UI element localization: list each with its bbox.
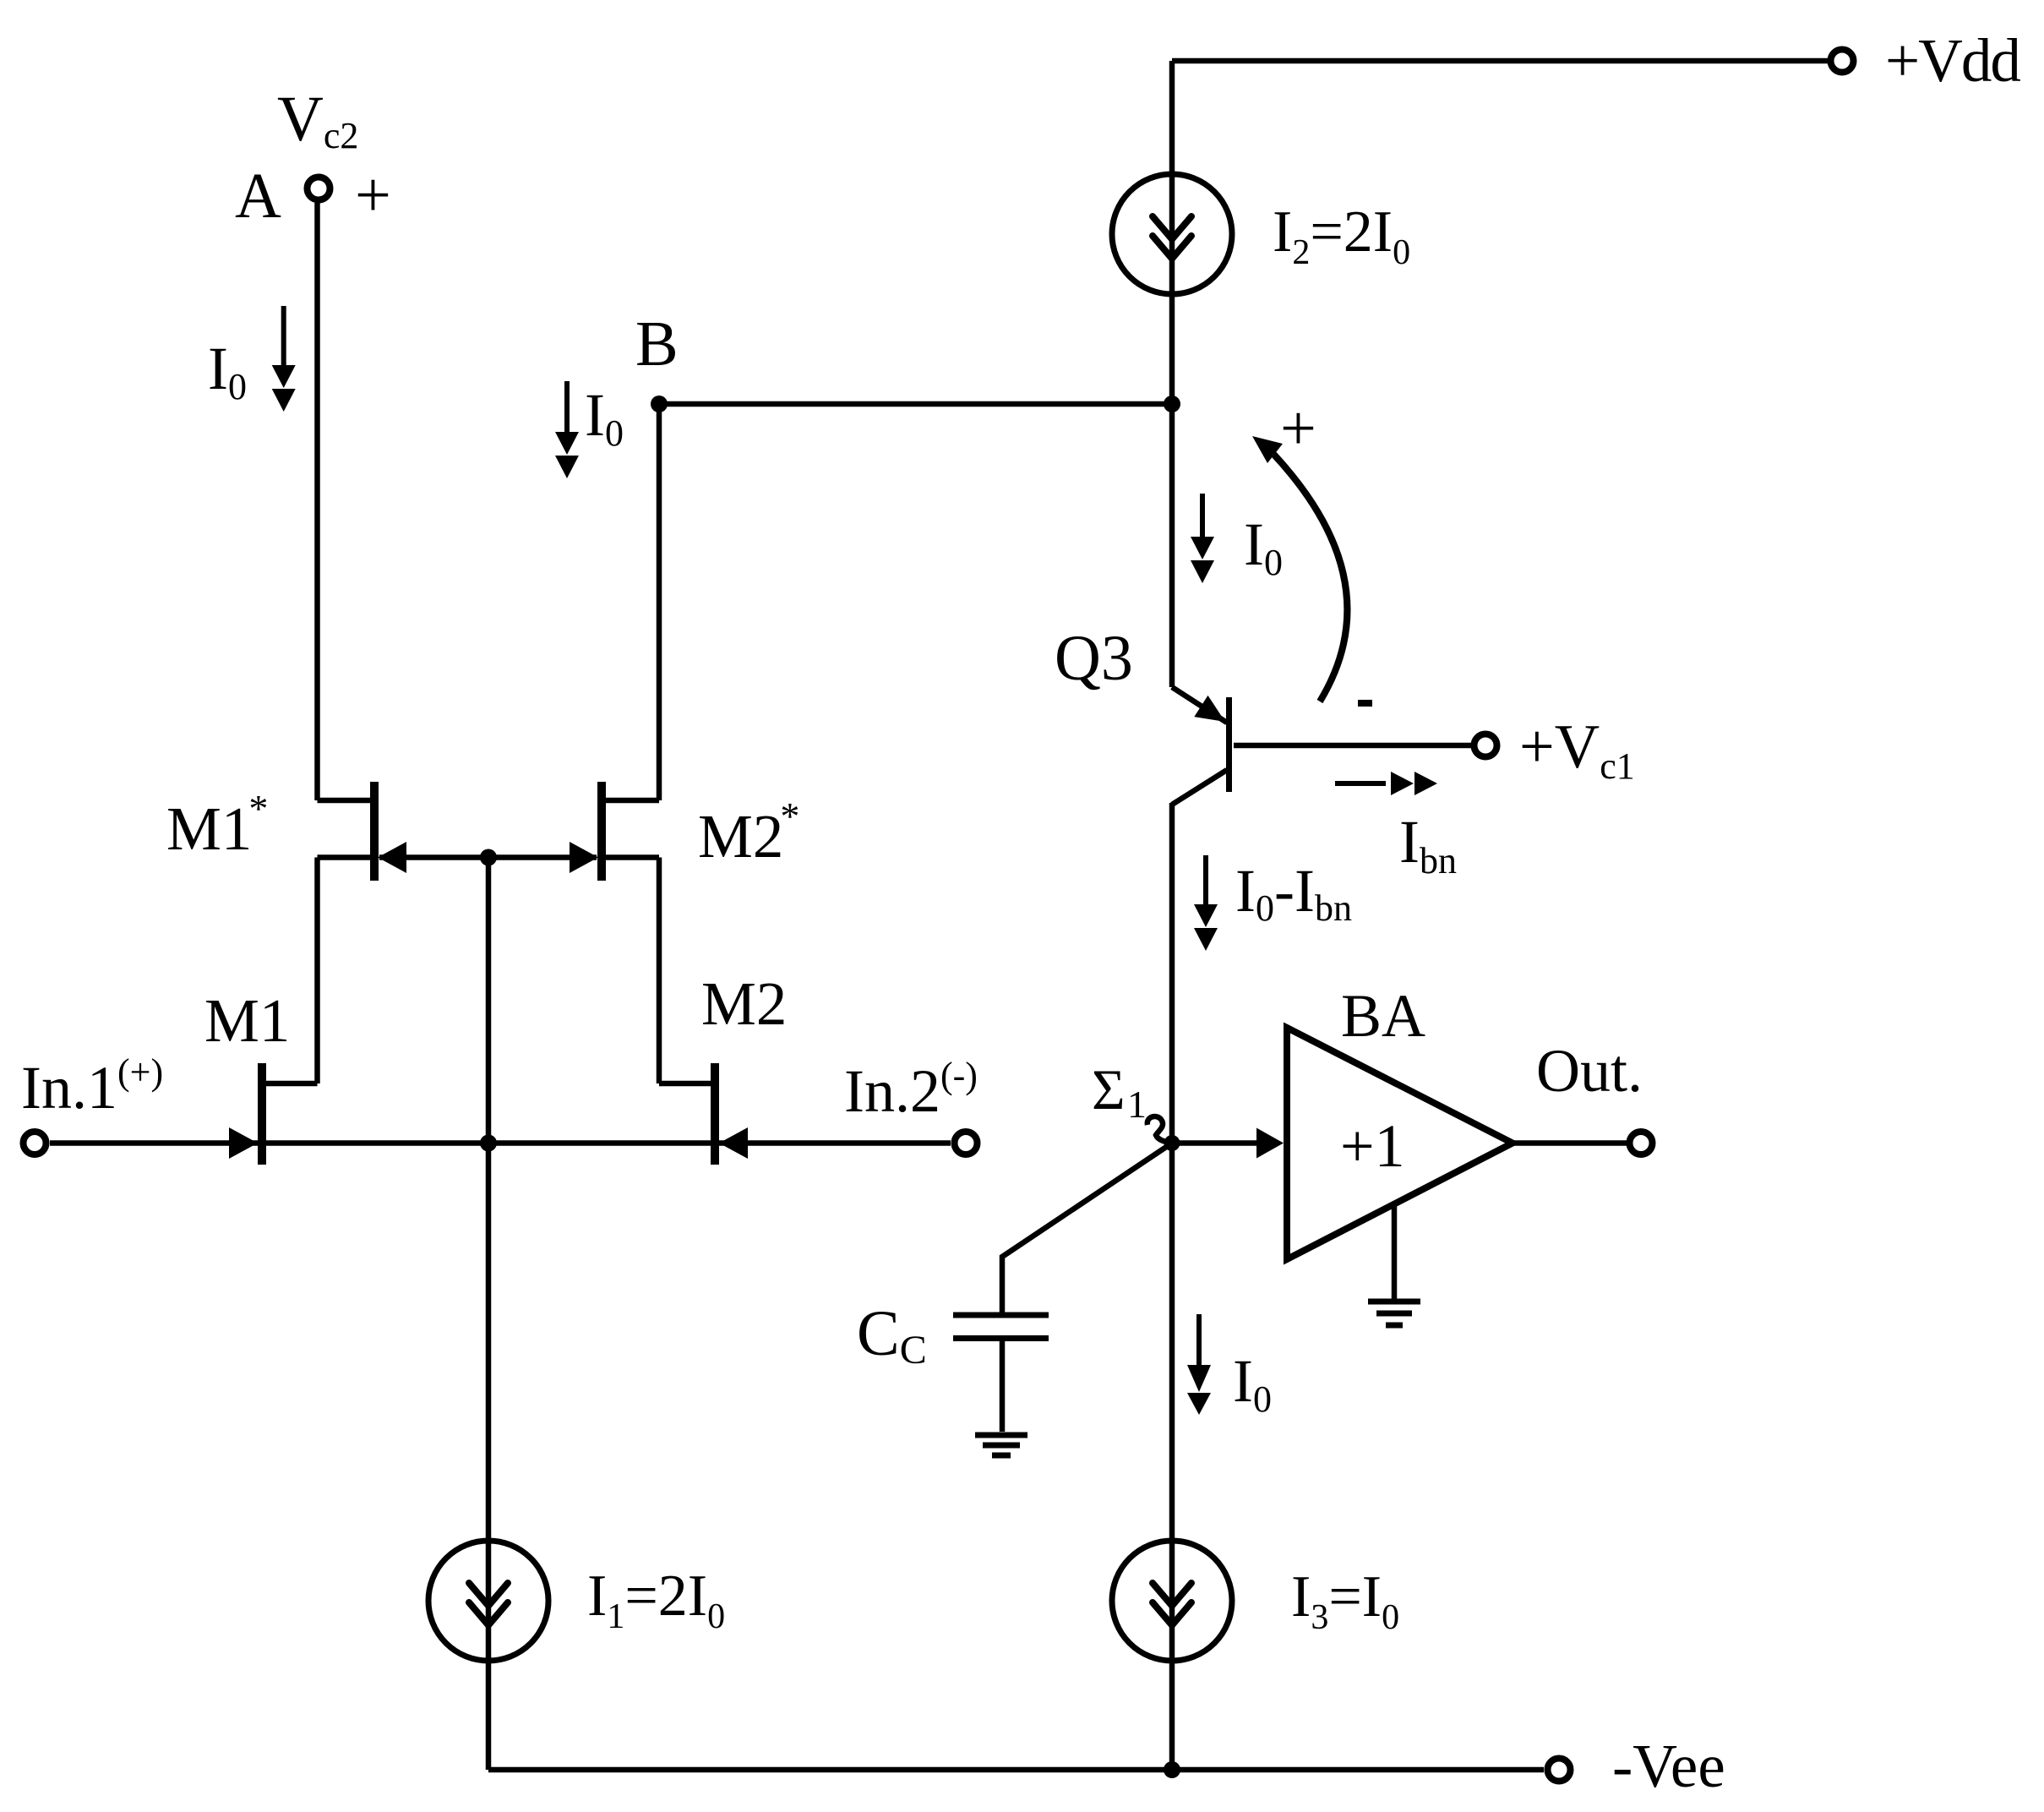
node input row junction bbox=[480, 1135, 497, 1152]
label - of curved arrow bbox=[1358, 700, 1372, 707]
wire node to buffer input bbox=[1178, 1140, 1263, 1146]
terminal Vc2 node A bbox=[308, 177, 330, 200]
current arrow I0 into M2* bbox=[555, 381, 579, 478]
svg-text:M1: M1 bbox=[204, 986, 290, 1055]
node Vee junction bbox=[1164, 1761, 1180, 1778]
wire -Vee rail bbox=[488, 1767, 1544, 1773]
terminal In.1 bbox=[24, 1132, 46, 1154]
curved polarity arrow bbox=[1273, 453, 1347, 701]
svg-text:M2: M2 bbox=[701, 969, 787, 1038]
transistor M1* bbox=[318, 782, 375, 881]
terminal Out bbox=[1630, 1132, 1653, 1154]
terminal +Vc1 bbox=[1474, 734, 1497, 757]
arrowhead into M1* gate bbox=[378, 842, 406, 873]
wire sigma node to capacitor bbox=[1002, 1143, 1172, 1313]
arrowhead into M1 gate bbox=[229, 1127, 258, 1159]
arrowhead of curved arrow bbox=[1252, 436, 1283, 463]
svg-text:A: A bbox=[235, 161, 281, 232]
wire +Vdd rail bbox=[1172, 58, 1828, 64]
svg-text:+: + bbox=[1280, 393, 1316, 464]
svg-text:+1: +1 bbox=[1340, 1112, 1405, 1180]
current arrow I0 above I3 bbox=[1187, 1314, 1211, 1415]
wire input row In.1 to In.2 bbox=[50, 1140, 951, 1146]
arrowhead into Q3 bbox=[1194, 696, 1225, 722]
buffer amplifier BA bbox=[1287, 1028, 1513, 1259]
transistor Q3 emitter lead bbox=[1172, 770, 1227, 805]
wire M2* source to M2 drain bbox=[657, 858, 662, 1084]
svg-text:Σ: Σ bbox=[1092, 1057, 1126, 1122]
terminal In.2 bbox=[955, 1132, 978, 1154]
terminal +Vdd bbox=[1831, 50, 1854, 73]
current arrow I0 above Q3 bbox=[1191, 494, 1214, 583]
wire Q3 emitter down to Vee rail bbox=[1169, 803, 1175, 1770]
svg-text:BA: BA bbox=[1341, 982, 1425, 1050]
node junction at B rail bbox=[1164, 396, 1180, 412]
ground of buffer BA bbox=[1368, 1302, 1420, 1325]
svg-text:+: + bbox=[355, 160, 391, 231]
wire Q3 base to Vc1 bbox=[1234, 743, 1471, 749]
current source I2 bbox=[1112, 174, 1232, 294]
svg-text:Q3: Q3 bbox=[1055, 623, 1133, 694]
transistor M1 bbox=[262, 1063, 318, 1165]
current arrow I0-Ibn bbox=[1194, 855, 1218, 951]
transistor M2 bbox=[659, 1063, 715, 1165]
wire buffer output bbox=[1513, 1140, 1627, 1146]
wire Vdd rail to I2 bbox=[1169, 61, 1175, 177]
node B bbox=[651, 396, 668, 412]
svg-text:+Vdd: +Vdd bbox=[1885, 26, 2020, 95]
node gate bus junction bbox=[480, 849, 497, 866]
current source I3 bbox=[1112, 1541, 1232, 1661]
current arrow Ibn bbox=[1335, 772, 1437, 795]
ground of capacitor bbox=[975, 1435, 1027, 1455]
wire buffer to ground bbox=[1392, 1205, 1398, 1299]
wire A down to M1* drain bbox=[314, 203, 320, 800]
svg-text:Out.: Out. bbox=[1536, 1037, 1643, 1105]
svg-text:B: B bbox=[635, 308, 679, 379]
transistor Q3 collector lead bbox=[1172, 687, 1227, 723]
wire node B horizontal bbox=[659, 401, 1172, 407]
arrowhead into M2 gate bbox=[719, 1127, 748, 1159]
arrowhead into M2* gate bbox=[570, 842, 598, 873]
svg-text:-Vee: -Vee bbox=[1612, 1732, 1725, 1800]
wire M1* source to M1 drain bbox=[314, 858, 320, 1084]
svg-text:1: 1 bbox=[1127, 1083, 1147, 1126]
wire center column down to I1 and Vee rail bbox=[486, 858, 492, 1771]
current arrow I0 into M1* bbox=[272, 306, 296, 412]
squiggle from Sigma1 to node bbox=[1147, 1116, 1171, 1143]
node sigma1 junction bbox=[1164, 1135, 1180, 1151]
current source I1 bbox=[428, 1541, 548, 1661]
wire I2 to node B junction and Q3 emitter bbox=[1169, 292, 1175, 687]
arrowhead into buffer BA bbox=[1256, 1128, 1284, 1159]
capacitor Cc bbox=[953, 1315, 1049, 1339]
terminal -Vee bbox=[1548, 1759, 1571, 1782]
transistor M2* bbox=[602, 782, 659, 881]
transistor Q3 base bar bbox=[1226, 697, 1232, 792]
wire node B down to M2* drain bbox=[657, 404, 662, 800]
wire gate bus M1* to M2* bbox=[379, 854, 597, 860]
wire capacitor to ground bbox=[1000, 1341, 1006, 1432]
